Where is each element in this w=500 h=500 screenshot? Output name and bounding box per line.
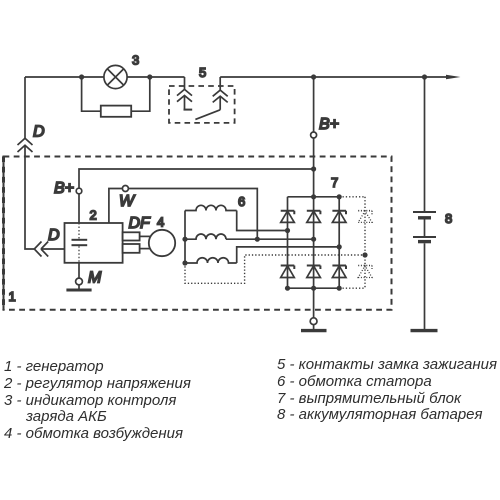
node bottom bus right [337, 286, 342, 291]
terminal B+ generator [76, 188, 82, 194]
indicator lamp 3 [104, 65, 127, 88]
battery plate short top [418, 216, 431, 219]
wire right contact stem [219, 96, 221, 110]
wire DF upper to field winding [140, 235, 151, 237]
wire bottom phase to rectifier [237, 247, 340, 263]
node W junction on middle phase [255, 237, 260, 242]
wire B+ vertical upper [313, 77, 315, 132]
node top bus middle [311, 194, 316, 199]
field winding 4 [149, 230, 175, 256]
wire top phase to rectifier [237, 211, 288, 231]
node junction top rail at battery column [422, 74, 427, 79]
node stator bus bottom [182, 260, 187, 265]
svg-text:5: 5 [199, 65, 206, 80]
wire left vertical drop from top rail [24, 77, 26, 138]
wire B+ terminal to regulator [78, 194, 80, 223]
rectifier bottom bus [288, 287, 340, 289]
rectifier middle column [313, 197, 315, 288]
terminal M [76, 278, 83, 285]
wire top rail left segment [25, 76, 185, 78]
diode D1 top-left [281, 211, 295, 223]
connector chevrons D on left vertical [18, 138, 33, 152]
diode D7 dotted top [358, 211, 372, 223]
node dotted junction [362, 252, 367, 257]
wire middle phase to rectifier [226, 238, 314, 240]
wire terminal to ground bar [313, 325, 315, 329]
wire DF lower to field winding [140, 248, 151, 250]
rectifier right column [338, 197, 340, 288]
arrow at right end of top rail [446, 75, 461, 80]
voltage regulator box 2 [65, 223, 123, 263]
svg-text:W: W [119, 193, 136, 210]
connector chevrons on right switch contact [213, 90, 228, 102]
diode D6 bottom-right [332, 266, 346, 278]
DF pin lower [123, 244, 140, 253]
wire into left switch contact [184, 77, 186, 89]
connector chevrons D on horizontal wire [34, 242, 48, 257]
node junction right of lamp [147, 74, 152, 79]
svg-text:B+: B+ [54, 180, 74, 197]
node phase left [285, 228, 290, 233]
wire resistor branch right [131, 77, 150, 111]
connector chevrons on left switch contact [177, 89, 192, 101]
wire M to ground [78, 285, 80, 289]
svg-text:2: 2 [90, 208, 97, 223]
terminal B+ main [311, 132, 317, 138]
ignition switch dashed box 5 [169, 86, 235, 123]
diode D2 top-middle [307, 211, 321, 223]
svg-text:6: 6 [238, 194, 245, 209]
switch blade diagonal [195, 110, 220, 120]
wire battery bottom [424, 243, 426, 329]
svg-text:DF: DF [129, 215, 152, 232]
ground battery [411, 329, 438, 332]
svg-text:M: M [88, 270, 102, 287]
left contact fixed bar [184, 109, 193, 111]
generator box left edge thick [2, 157, 5, 310]
stator coil middle [185, 234, 226, 239]
node bottom bus middle [311, 286, 316, 291]
node bottom bus left [285, 286, 290, 291]
node phase middle [311, 237, 316, 242]
rectifier top bus [288, 196, 340, 198]
wire W feed from stator [128, 189, 257, 240]
node junction B+ internal on main column [311, 166, 316, 171]
svg-text:D: D [48, 227, 60, 244]
rectifier left column [287, 197, 289, 288]
ground M [66, 289, 91, 292]
wire B+ internal feed [79, 169, 314, 188]
stator coil top [185, 205, 237, 210]
stator left bus [184, 211, 186, 264]
wire rectifier to ground [313, 288, 315, 318]
wire between battery cells [424, 220, 426, 238]
svg-text:8: 8 [445, 211, 452, 226]
node top bus right [337, 194, 342, 199]
wire into right switch contact [219, 77, 221, 90]
svg-text:7: 7 [331, 175, 338, 190]
wire from chevron to regulator box [41, 248, 65, 250]
node junction left of lamp [79, 74, 84, 79]
wire resistor branch left [82, 77, 101, 111]
node phase right [337, 244, 342, 249]
wire battery top [424, 77, 426, 212]
battery plate long bottom [413, 236, 436, 238]
resistor parallel to lamp [101, 106, 131, 117]
legend left column [4, 359, 191, 443]
svg-text:1: 1 [9, 289, 16, 304]
wire top rail right segment [220, 76, 447, 78]
terminal ground rectifier [310, 318, 317, 325]
svg-text:3: 3 [132, 53, 139, 68]
battery plate long top [413, 211, 436, 213]
dotted auxiliary column wires [185, 197, 365, 288]
diode D5 bottom-middle [307, 266, 321, 278]
battery plate short bottom [418, 240, 431, 243]
diode D4 bottom-left [281, 266, 295, 278]
stator coil bottom [185, 258, 237, 263]
svg-text:B+: B+ [319, 116, 339, 133]
generator dashed box 1 [4, 157, 392, 310]
battery 8 [411, 77, 438, 331]
capacitor lead dotted upper [78, 223, 80, 239]
wire left vertical lower part to corner [25, 145, 34, 249]
wire M terminal [78, 263, 80, 278]
capacitor plate lower [72, 244, 88, 246]
wire left contact stem [184, 96, 186, 110]
svg-text:D: D [33, 124, 45, 141]
ground rectifier [301, 329, 327, 332]
wire W terminal to regulator [109, 189, 123, 224]
dotted neutral wire from stator [185, 255, 365, 283]
DF pin upper [123, 232, 140, 240]
diode D3 top-right [332, 211, 346, 223]
wire B+ vertical into generator [313, 138, 315, 197]
node junction top rail at B+ column [311, 74, 316, 79]
capacitor lead dotted lower [78, 246, 80, 263]
svg-text:4: 4 [157, 215, 164, 230]
terminal W [122, 186, 128, 192]
node stator bus middle [182, 237, 187, 242]
legend right column [277, 357, 497, 424]
diode D8 dotted bottom [358, 266, 372, 278]
capacitor plate upper [72, 239, 88, 241]
